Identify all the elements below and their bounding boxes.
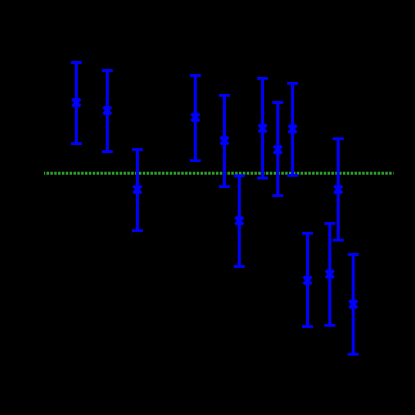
data point 8 error bar: [272, 103, 283, 196]
data point 7 error bar: [257, 78, 268, 178]
data point 13 error bar: [348, 255, 359, 355]
data point 6 error bar: [234, 176, 245, 267]
zero reference line (green dotted): [44, 172, 394, 175]
data point 12 error bar: [333, 139, 344, 241]
data point 4 error bar: [190, 76, 201, 161]
data point 1 error bar: [71, 63, 82, 144]
data point 9 error bar: [287, 83, 298, 175]
data point 2 error bar: [102, 71, 113, 152]
data point 5 error bar: [219, 95, 230, 186]
data point 10 error bar: [302, 233, 313, 326]
data point 11 error bar: [324, 224, 335, 326]
data point 3 error bar: [132, 150, 143, 231]
